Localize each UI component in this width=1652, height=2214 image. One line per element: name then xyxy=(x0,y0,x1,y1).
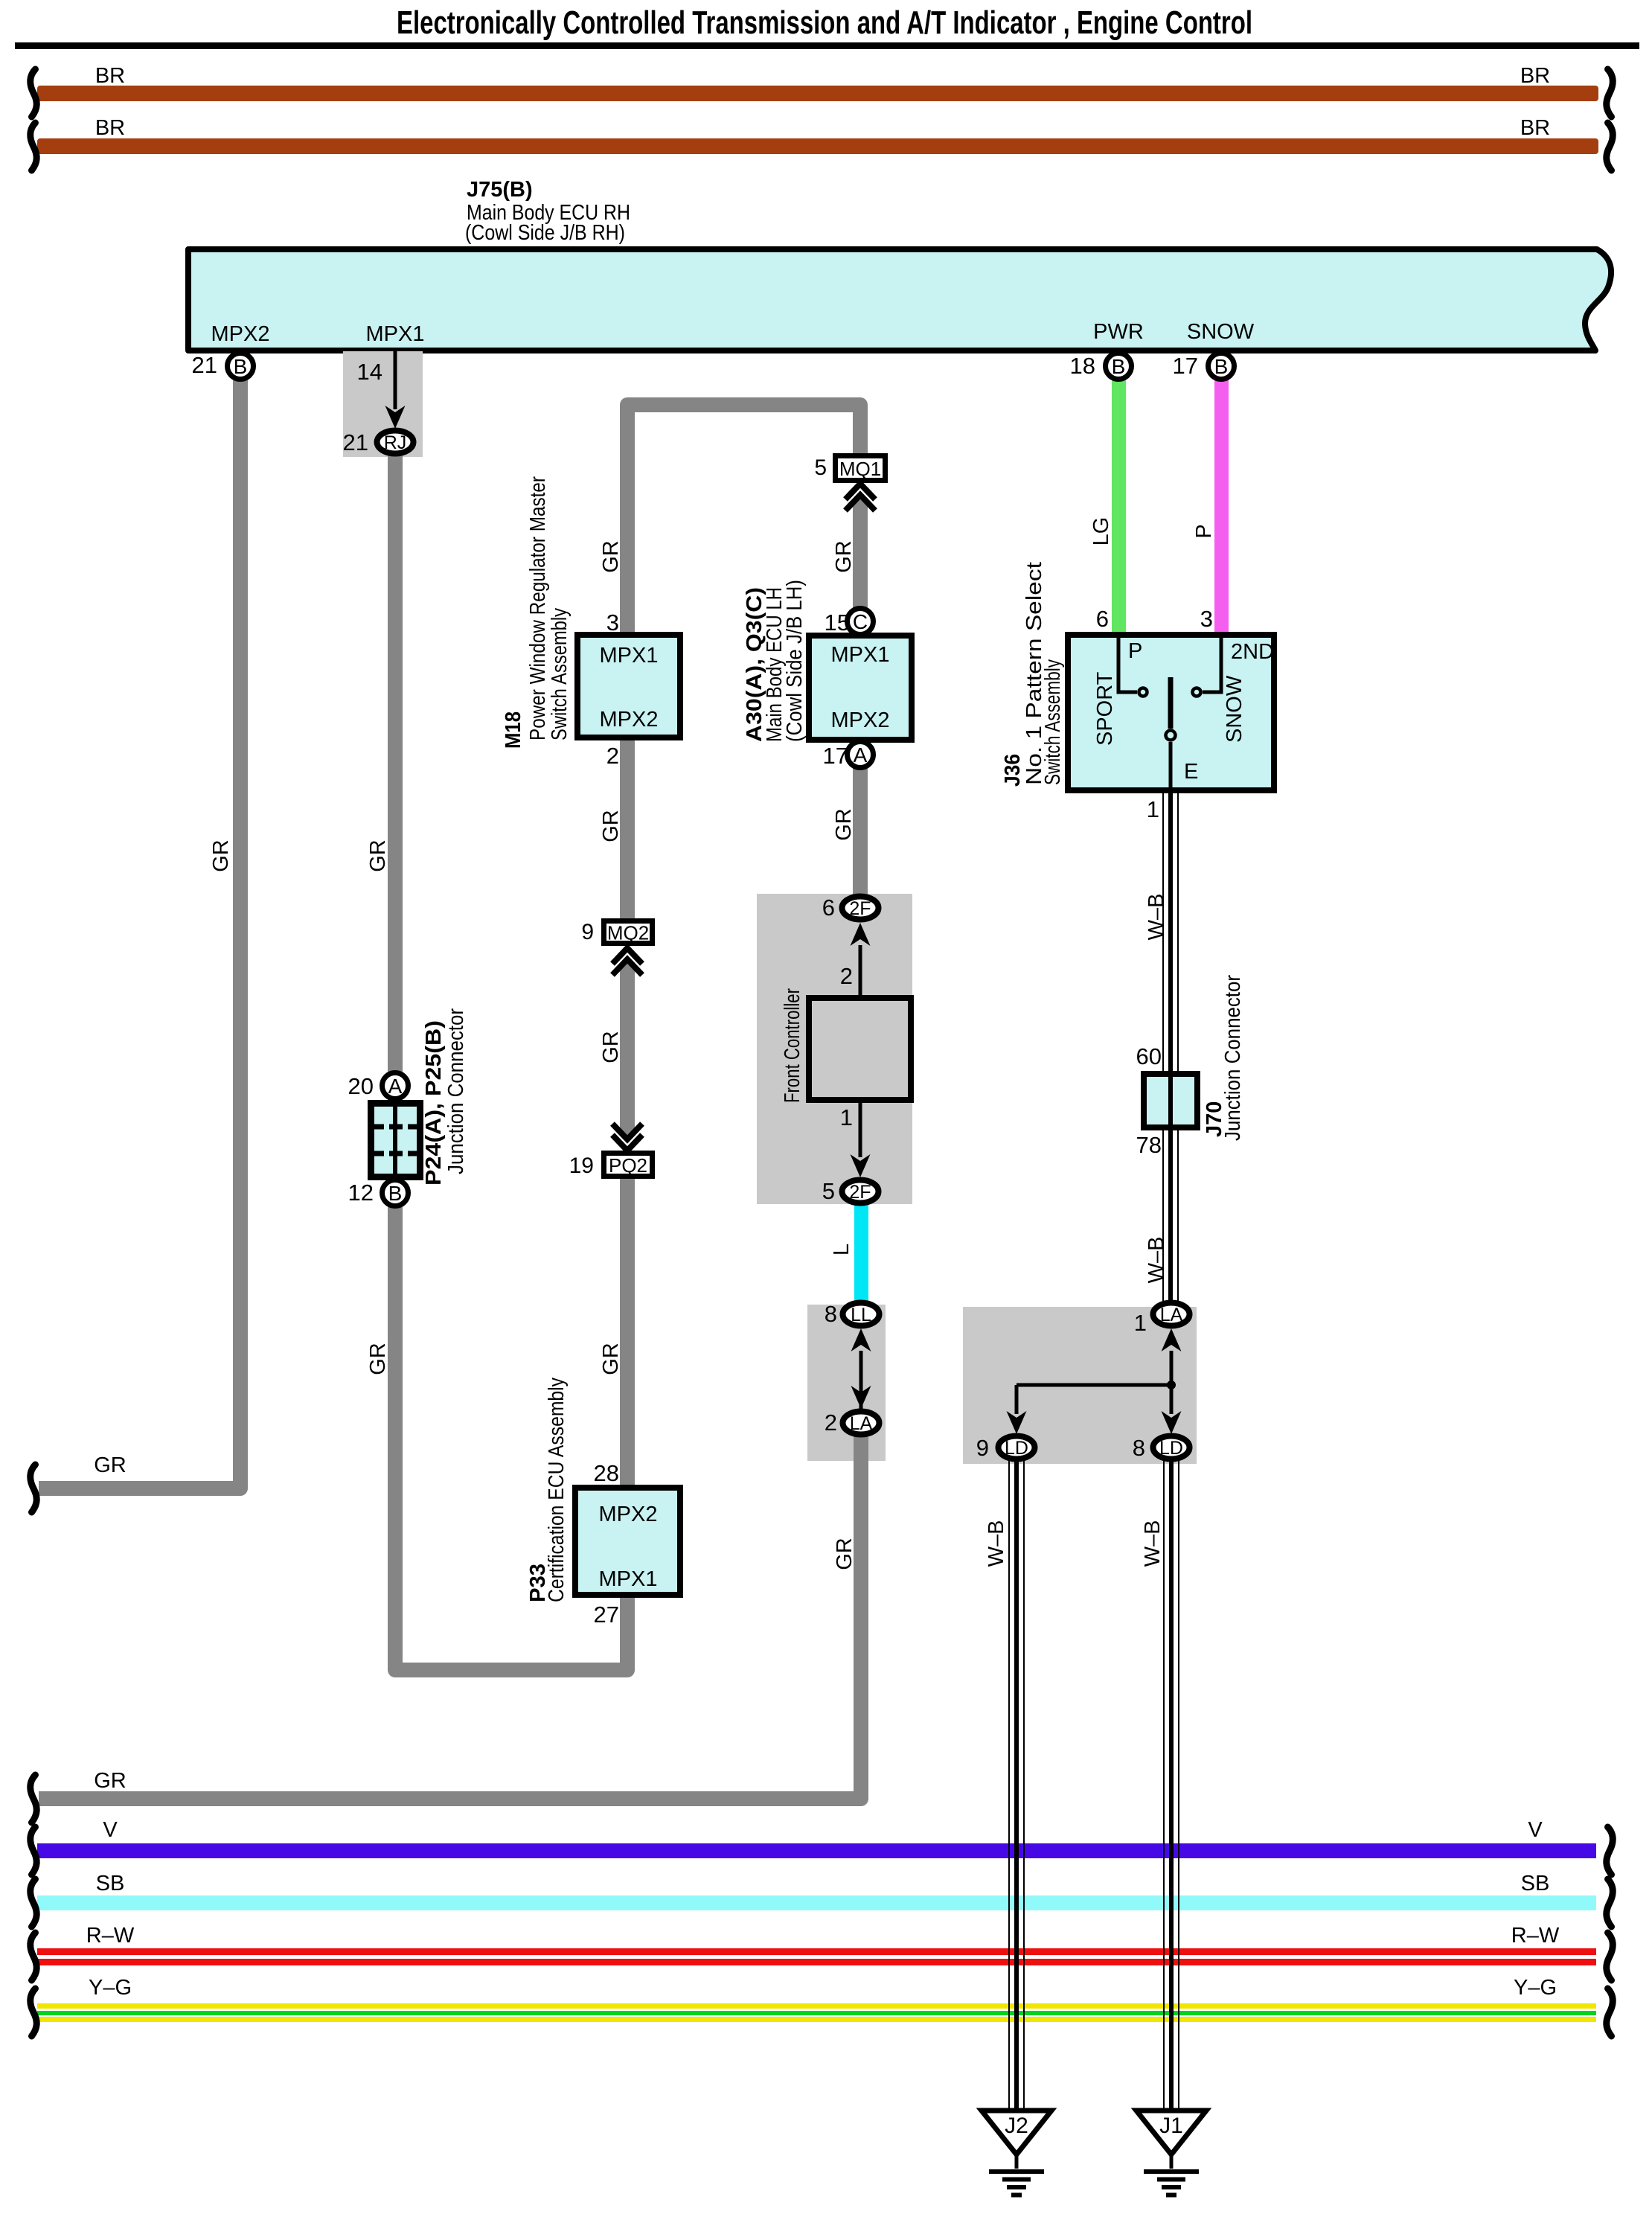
svg-text:3: 3 xyxy=(1200,606,1213,632)
svg-text:MPX2: MPX2 xyxy=(831,708,890,732)
svg-text:V: V xyxy=(103,1818,118,1842)
svg-text:78: 78 xyxy=(1136,1132,1162,1158)
svg-text:MPX2: MPX2 xyxy=(600,708,659,732)
svg-text:1: 1 xyxy=(1134,1310,1147,1336)
svg-text:W–B: W–B xyxy=(1144,894,1168,941)
svg-text:LL: LL xyxy=(851,1305,871,1325)
svg-text:17: 17 xyxy=(823,743,848,769)
svg-text:2F: 2F xyxy=(849,898,871,919)
svg-text:GR: GR xyxy=(599,1031,623,1063)
svg-text:Certification ECU Assembly: Certification ECU Assembly xyxy=(545,1378,569,1602)
svg-text:BR: BR xyxy=(1520,116,1550,140)
svg-text:SB: SB xyxy=(96,1872,125,1895)
svg-text:1: 1 xyxy=(1147,796,1159,822)
svg-text:J75(B): J75(B) xyxy=(467,178,533,202)
svg-text:W–B: W–B xyxy=(1141,1520,1165,1567)
svg-text:SNOW: SNOW xyxy=(1223,675,1246,743)
svg-text:BR: BR xyxy=(1520,64,1550,88)
svg-text:1: 1 xyxy=(840,1104,853,1130)
svg-text:GR: GR xyxy=(833,1538,857,1570)
svg-text:LA: LA xyxy=(850,1413,873,1434)
svg-text:15: 15 xyxy=(825,610,850,636)
svg-text:20: 20 xyxy=(348,1073,374,1099)
svg-text:GR: GR xyxy=(599,1343,623,1375)
svg-text:J36: J36 xyxy=(1001,754,1025,787)
svg-text:R–W: R–W xyxy=(1511,1924,1560,1948)
svg-text:8: 8 xyxy=(825,1301,837,1327)
svg-text:MPX1: MPX1 xyxy=(831,643,890,667)
svg-text:P24(A), P25(B): P24(A), P25(B) xyxy=(422,1020,446,1186)
svg-text:Front Controller: Front Controller xyxy=(781,988,804,1103)
svg-text:6: 6 xyxy=(1096,606,1109,632)
svg-text:MPX1: MPX1 xyxy=(366,322,425,346)
svg-text:2F: 2F xyxy=(849,1182,871,1203)
svg-text:21: 21 xyxy=(192,352,217,378)
svg-text:Switch Assembly: Switch Assembly xyxy=(548,608,572,740)
svg-text:P: P xyxy=(1128,639,1142,663)
svg-text:2: 2 xyxy=(606,743,619,769)
svg-text:B: B xyxy=(234,355,248,378)
svg-text:LD: LD xyxy=(1159,1438,1183,1459)
svg-text:(Cowl Side J/B RH): (Cowl Side J/B RH) xyxy=(465,221,625,245)
svg-text:MQ1: MQ1 xyxy=(839,458,881,480)
svg-text:J2: J2 xyxy=(1005,2114,1028,2138)
svg-text:MPX2: MPX2 xyxy=(211,322,270,346)
svg-text:SPORT: SPORT xyxy=(1093,671,1117,746)
svg-text:18: 18 xyxy=(1070,353,1095,379)
svg-text:GR: GR xyxy=(599,540,623,573)
svg-text:R–W: R–W xyxy=(86,1924,135,1948)
svg-text:8: 8 xyxy=(1133,1435,1145,1461)
svg-text:M18: M18 xyxy=(502,711,525,749)
svg-text:A: A xyxy=(388,1075,403,1098)
svg-text:J1: J1 xyxy=(1159,2114,1183,2138)
svg-text:Junction Connector: Junction Connector xyxy=(444,1008,468,1174)
svg-text:PQ2: PQ2 xyxy=(609,1154,647,1177)
svg-text:GR: GR xyxy=(366,1343,390,1375)
svg-text:Switch Assembly: Switch Assembly xyxy=(1041,659,1065,785)
svg-text:21: 21 xyxy=(343,429,368,455)
svg-text:6: 6 xyxy=(822,895,835,921)
svg-text:9: 9 xyxy=(976,1435,989,1461)
svg-text:2: 2 xyxy=(840,963,853,989)
svg-text:14: 14 xyxy=(357,359,382,385)
svg-text:5: 5 xyxy=(822,1178,835,1204)
svg-text:28: 28 xyxy=(594,1460,619,1486)
svg-text:RJ: RJ xyxy=(384,432,407,453)
svg-text:2ND: 2ND xyxy=(1231,640,1274,664)
svg-text:GR: GR xyxy=(209,839,233,872)
svg-text:LA: LA xyxy=(1160,1305,1183,1325)
svg-text:C: C xyxy=(853,610,868,633)
svg-text:27: 27 xyxy=(594,1602,619,1628)
svg-text:GR: GR xyxy=(366,839,390,872)
svg-text:BR: BR xyxy=(95,116,125,140)
svg-text:3: 3 xyxy=(606,610,619,636)
svg-text:SNOW: SNOW xyxy=(1187,320,1255,344)
svg-text:MPX1: MPX1 xyxy=(600,644,659,668)
svg-text:5: 5 xyxy=(814,455,827,480)
svg-text:L: L xyxy=(830,1244,854,1255)
svg-text:P: P xyxy=(1192,524,1216,538)
svg-text:B: B xyxy=(1112,355,1126,378)
svg-text:GR: GR xyxy=(832,540,856,573)
svg-text:B: B xyxy=(388,1182,403,1205)
svg-text:Electronically Controlled Tran: Electronically Controlled Transmission a… xyxy=(397,4,1252,41)
svg-text:A: A xyxy=(854,743,868,767)
svg-text:V: V xyxy=(1528,1818,1543,1842)
svg-text:Y–G: Y–G xyxy=(1514,1976,1557,2000)
svg-text:MQ2: MQ2 xyxy=(607,922,649,944)
svg-text:19: 19 xyxy=(569,1154,594,1178)
svg-text:MPX2: MPX2 xyxy=(599,1503,658,1526)
svg-text:60: 60 xyxy=(1136,1043,1162,1069)
svg-text:W–B: W–B xyxy=(985,1520,1008,1567)
svg-text:Power Window Regulator Master: Power Window Regulator Master xyxy=(526,476,550,740)
svg-text:GR: GR xyxy=(94,1453,127,1477)
svg-text:(Cowl Side J/B LH): (Cowl Side J/B LH) xyxy=(783,580,807,742)
svg-text:Junction Connector: Junction Connector xyxy=(1221,975,1245,1141)
svg-text:B: B xyxy=(1214,355,1229,378)
svg-text:GR: GR xyxy=(599,810,623,842)
svg-text:17: 17 xyxy=(1173,353,1198,379)
svg-text:9: 9 xyxy=(581,920,594,944)
svg-text:LD: LD xyxy=(1005,1438,1028,1459)
svg-text:SB: SB xyxy=(1521,1872,1550,1895)
svg-text:Y–G: Y–G xyxy=(89,1976,132,2000)
svg-text:E: E xyxy=(1184,760,1198,784)
svg-text:2: 2 xyxy=(825,1410,837,1436)
svg-text:GR: GR xyxy=(94,1769,127,1793)
svg-text:12: 12 xyxy=(348,1180,374,1206)
svg-text:BR: BR xyxy=(95,64,125,88)
svg-text:LG: LG xyxy=(1089,517,1113,546)
svg-text:MPX1: MPX1 xyxy=(599,1567,658,1591)
svg-text:GR: GR xyxy=(832,808,856,841)
svg-text:W–B: W–B xyxy=(1144,1237,1168,1284)
svg-text:PWR: PWR xyxy=(1093,320,1144,344)
